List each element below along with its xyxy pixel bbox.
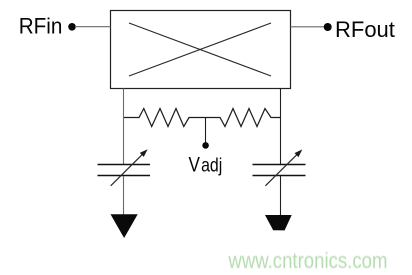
node Vadj dot <box>202 142 209 149</box>
svg-text:RFout: RFout <box>335 17 395 42</box>
ground (left) <box>111 214 138 238</box>
wire right capacitor to ground <box>280 176 282 215</box>
wire RFin dot to box <box>75 26 111 28</box>
wire right branch from box bottom through resistor node to capacitor <box>280 89 282 165</box>
wire left branch from box bottom through resistor node to capacitor <box>123 89 125 165</box>
capacitor C1 (left, variable) <box>98 149 151 186</box>
wire center tap down to Vadj node <box>205 118 207 143</box>
wire box to RFout dot <box>291 26 325 28</box>
node RFin terminal dot <box>68 23 76 31</box>
wire left capacitor to ground <box>123 176 125 215</box>
svg-text:RFin: RFin <box>19 14 63 39</box>
node RFout terminal dot <box>324 23 332 31</box>
svg-text:Vadj: Vadj <box>189 153 223 177</box>
capacitor C2 (right, variable) <box>253 149 306 185</box>
resistor R1 (left) with leads <box>124 109 206 127</box>
ground (right, truncated) <box>265 215 292 230</box>
svg-text:www.cntronics.com: www.cntronics.com <box>227 250 387 274</box>
hybrid coupler U1 (crossed box) <box>111 11 291 89</box>
resistor R2 (right) with leads <box>206 109 280 127</box>
label Vadj <box>189 153 223 177</box>
